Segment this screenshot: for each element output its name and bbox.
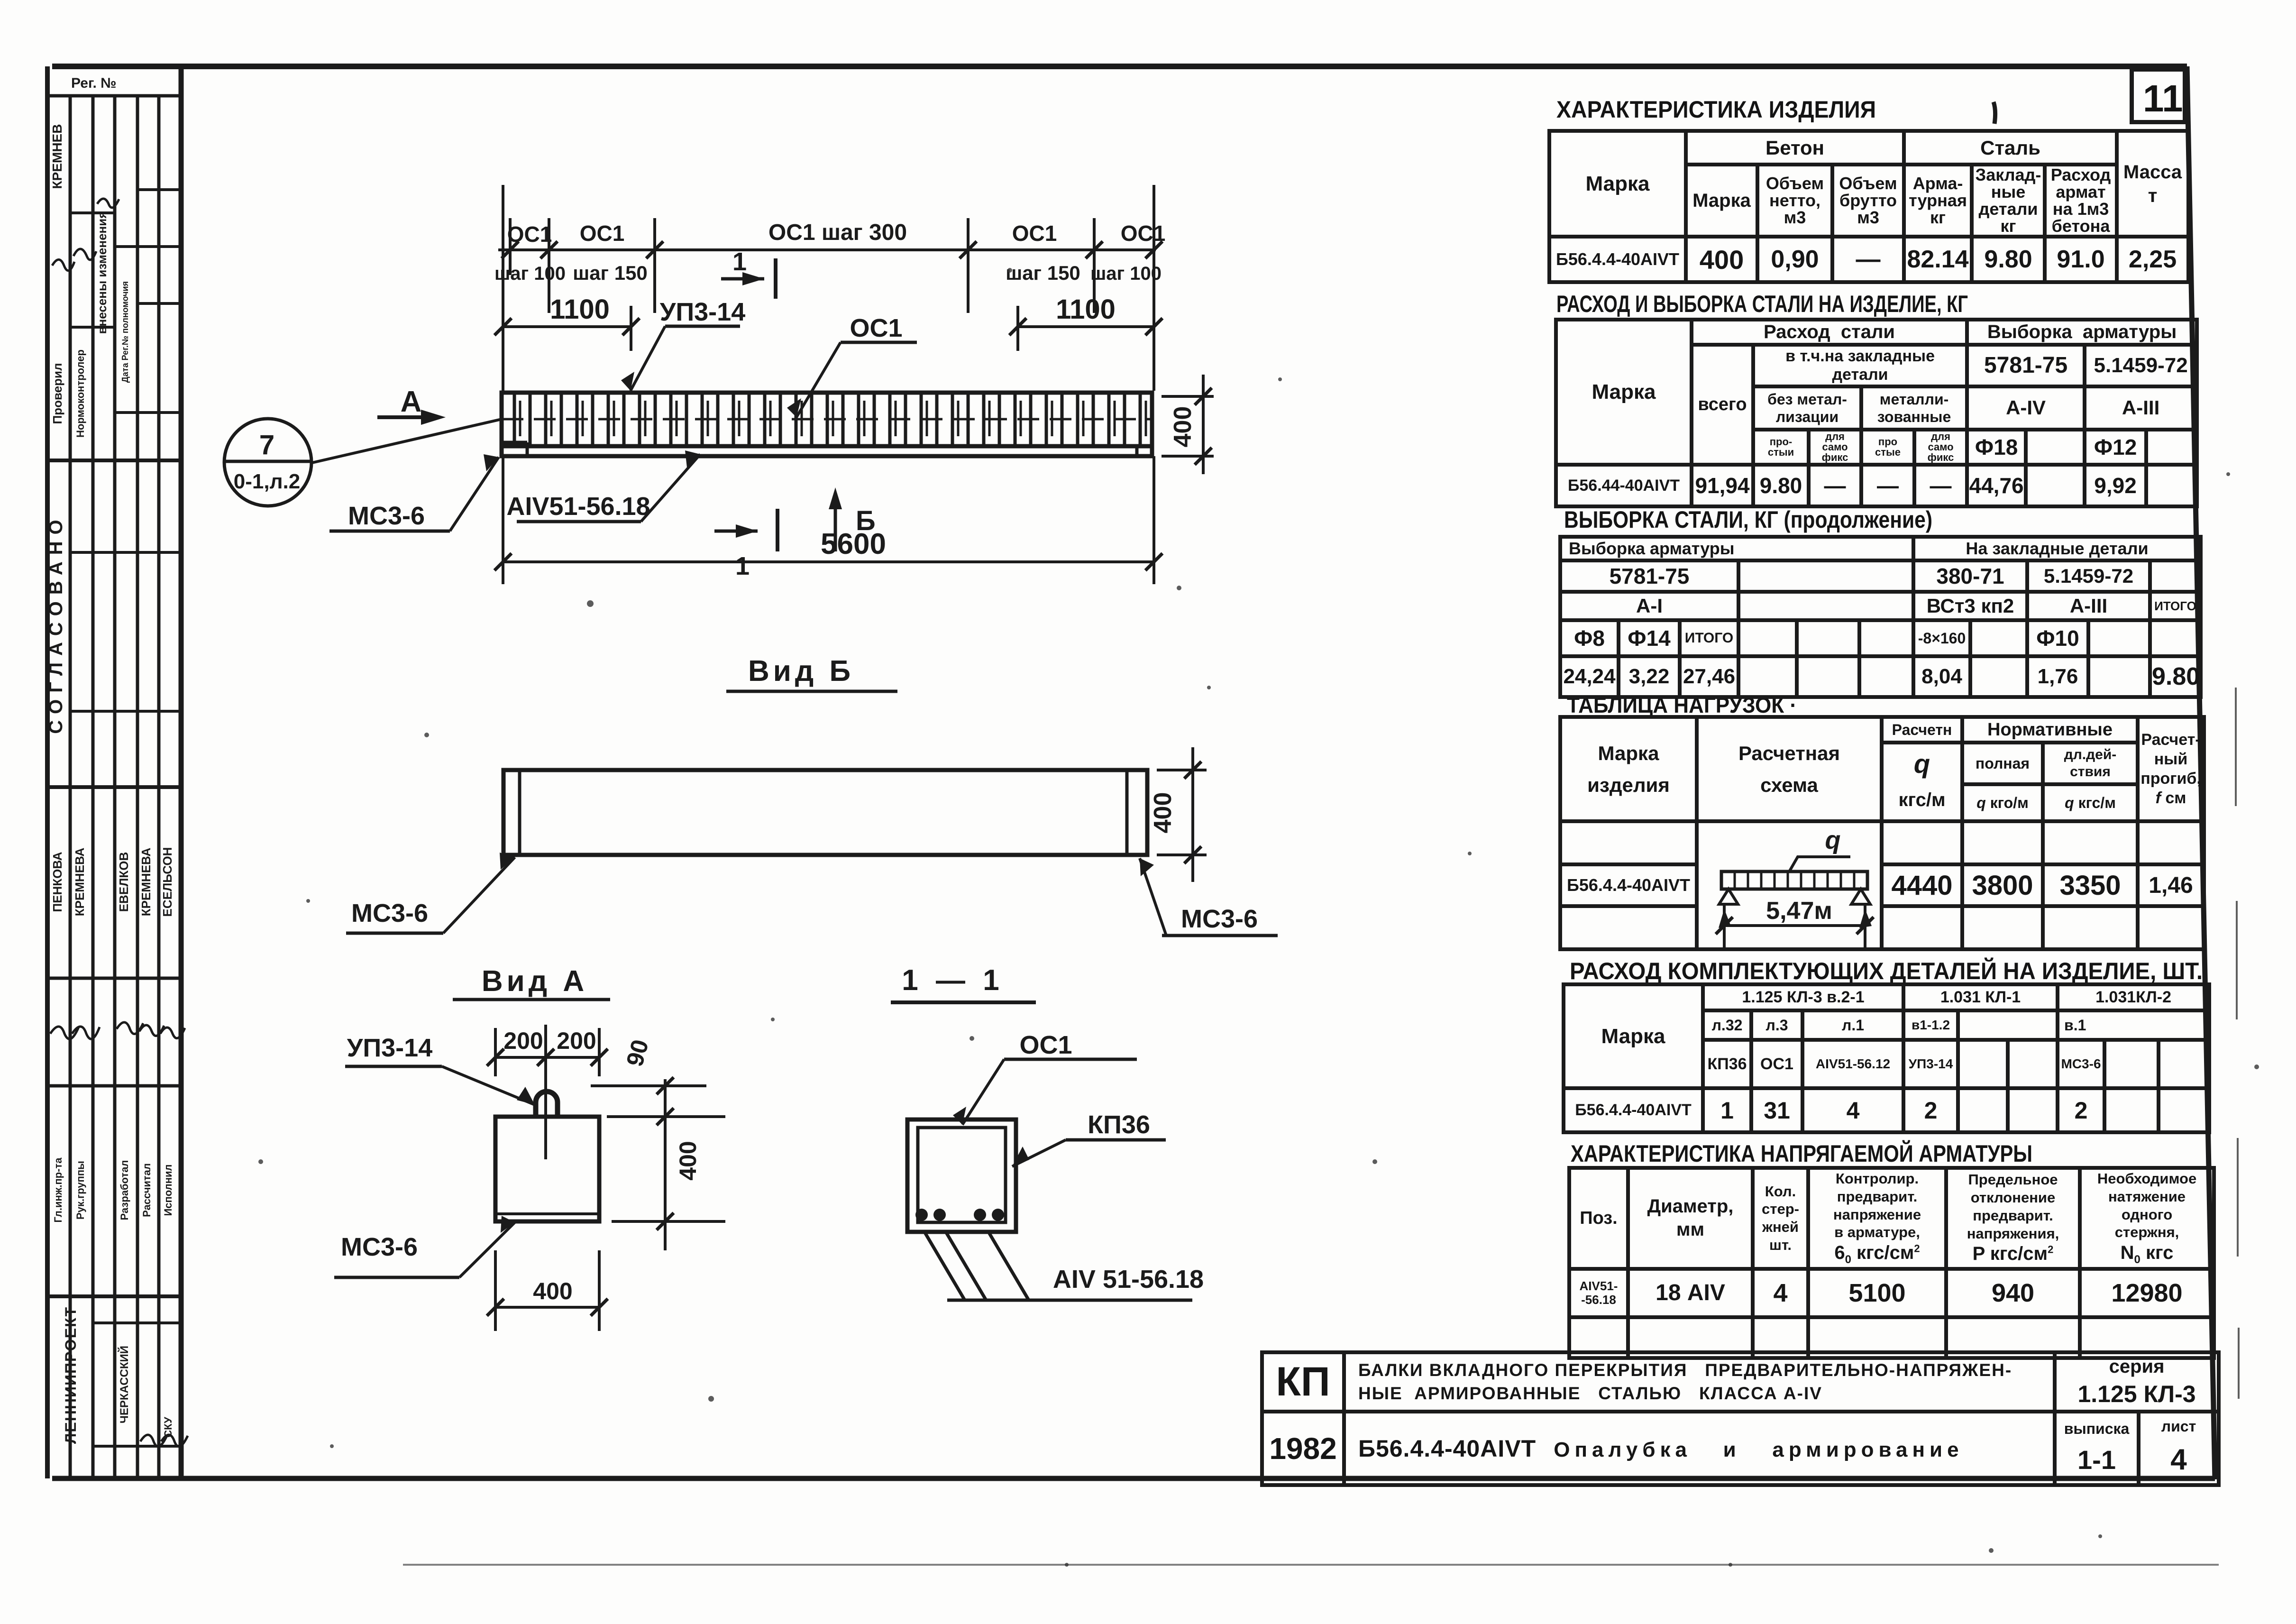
svg-text:МС3-6: МС3-6: [348, 502, 425, 530]
table РАСХОД КОМПЛЕКТУЮЩИХ ДЕТАЛЕЙ: [1562, 982, 2211, 1134]
svg-text:МС3-6: МС3-6: [351, 899, 428, 927]
svg-text:ОС1: ОС1: [850, 314, 902, 342]
svg-text:ОС1: ОС1: [1121, 221, 1166, 246]
svg-text:7: 7: [259, 430, 274, 460]
strip column lines: [69, 96, 72, 1478]
page number box 11: [2130, 67, 2187, 124]
title block: [1260, 1350, 2221, 1487]
УП3-14 loop anchor: [536, 1092, 558, 1117]
beam side view rectangle: [503, 770, 1147, 855]
beam left end plate МС3-6: [502, 442, 527, 456]
dimension 400 bottom (Вид А): [487, 1250, 608, 1331]
svg-text:А: А: [401, 385, 422, 418]
svg-text:шаг 100: шаг 100: [1090, 263, 1162, 284]
stirrup КП36 inner square: [918, 1128, 1006, 1222]
strip texts: [46, 75, 174, 1444]
dimension 1100 left: [494, 306, 640, 351]
left strip right line (drawing frame left): [179, 66, 184, 1478]
svg-text:КП36: КП36: [1088, 1110, 1150, 1139]
svg-text:5600: 5600: [821, 528, 886, 560]
leader circle to beam end: [312, 419, 502, 463]
svg-text:0-1,л.2: 0-1,л.2: [234, 470, 300, 493]
svg-text:200: 200: [557, 1028, 596, 1054]
svg-text:ОС1: ОС1: [1019, 1031, 1072, 1059]
svg-text:400: 400: [533, 1278, 572, 1304]
prestress bar dots: [915, 1209, 1004, 1221]
left strip outer left line: [45, 66, 50, 1478]
slash ticks: [502, 241, 1162, 258]
view arrow Б: [834, 497, 837, 551]
prestress bars diagonal leaders: [924, 1232, 1029, 1300]
svg-text:1 — 1: 1 — 1: [902, 964, 1004, 997]
dimension 5,47м: [1724, 924, 1865, 927]
support triangles: [1719, 889, 1870, 904]
svg-text:q: q: [1825, 826, 1841, 854]
table ТАБЛИЦА НАГРУЗОК: [1558, 715, 2206, 951]
svg-text:АIV 51-56.18: АIV 51-56.18: [1053, 1265, 1204, 1294]
svg-text:АIV51-56.18: АIV51-56.18: [506, 492, 650, 521]
dimension 400 (Вид Б): [1157, 747, 1207, 882]
square section: [495, 1117, 599, 1221]
frame right border: [2187, 66, 2215, 1479]
scan noise specks: [258, 268, 2259, 1567]
svg-text:МС3-6: МС3-6: [1181, 905, 1258, 933]
svg-text:Вид Б: Вид Б: [748, 655, 854, 688]
detail circle 7 / 0-1,л.2: [224, 419, 311, 506]
svg-text:5,47м: 5,47м: [1766, 897, 1832, 925]
svg-text:Вид А: Вид А: [482, 965, 588, 998]
svg-text:ОС1: ОС1: [580, 221, 625, 246]
beam body outline: [502, 393, 1152, 456]
svg-text:1100: 1100: [550, 294, 610, 325]
section mark 1 (top): [721, 258, 776, 299]
beam bottom chord line: [502, 444, 1152, 449]
dimension 200|200: [487, 1028, 608, 1076]
baseline АIV 51-56.18: [947, 1299, 1192, 1302]
svg-text:ОС1: ОС1: [1012, 221, 1057, 246]
table ВЫБОРКА СТАЛИ продолжение: [1558, 535, 2203, 699]
svg-text:УП3-14: УП3-14: [347, 1034, 432, 1062]
svg-text:1: 1: [735, 552, 750, 580]
schema beam with load: [1721, 872, 1867, 889]
support verticals: [1724, 904, 1865, 948]
table ХАРАКТЕРИСТИКА ИЗДЕЛИЯ: [1547, 129, 2190, 284]
svg-text:400: 400: [1169, 406, 1197, 448]
dimension 400 vertical (Вид А): [612, 1079, 725, 1250]
bottom faint line: [403, 1564, 2219, 1566]
extension verticals: [503, 185, 1154, 391]
signature squiggles in strip: [50, 199, 188, 1447]
anchor axis vertical: [544, 1025, 547, 1159]
svg-text:400: 400: [675, 1141, 701, 1180]
dimension 5600: [494, 456, 1162, 584]
svg-text:90: 90: [621, 1037, 653, 1069]
svg-text:1100: 1100: [1056, 294, 1116, 325]
svg-text:1: 1: [732, 248, 747, 276]
stray ink mark near top title: [1994, 102, 1995, 124]
svg-text:шаг 150: шаг 150: [573, 262, 648, 284]
dimension 90: [591, 1077, 725, 1125]
bottom plate МС3-6 double line: [495, 1212, 599, 1215]
svg-text:ОС1 шаг 300: ОС1 шаг 300: [768, 220, 907, 245]
svg-text:400: 400: [1149, 792, 1177, 834]
section mark 1 (bottom): [714, 509, 778, 551]
table ХАРАКТЕРИСТИКА НАПРЯГАЕМОЙ АРМАТУРЫ: [1567, 1166, 2216, 1360]
frame top border: [52, 64, 2187, 69]
svg-text:200: 200: [503, 1028, 543, 1054]
beam right end plate МС3-6: [1137, 446, 1152, 456]
svg-text:МС3-6: МС3-6: [341, 1233, 418, 1261]
far right margin broken line: [2236, 688, 2239, 1399]
strip horizontal dividers: [47, 94, 181, 98]
dimension 1100 right: [1009, 306, 1162, 351]
frame bottom border: [52, 1476, 2215, 1481]
table РАСХОД И ВЫБОРКА СТАЛИ: [1554, 318, 2199, 508]
end cap lines: [520, 770, 1127, 855]
stirrups hatching: [514, 395, 1146, 445]
dimension row ОС1 шаг (top): [498, 185, 1162, 391]
beam axis dashed line: [502, 418, 1152, 421]
svg-text:ОС1: ОС1: [507, 222, 552, 247]
section square: [907, 1119, 1016, 1232]
dimension 400 (elevation right): [1162, 375, 1214, 474]
svg-text:шаг 100: шаг 100: [494, 263, 566, 284]
svg-text:УП3-14: УП3-14: [660, 298, 745, 326]
svg-text:шаг 150: шаг 150: [1006, 262, 1080, 284]
